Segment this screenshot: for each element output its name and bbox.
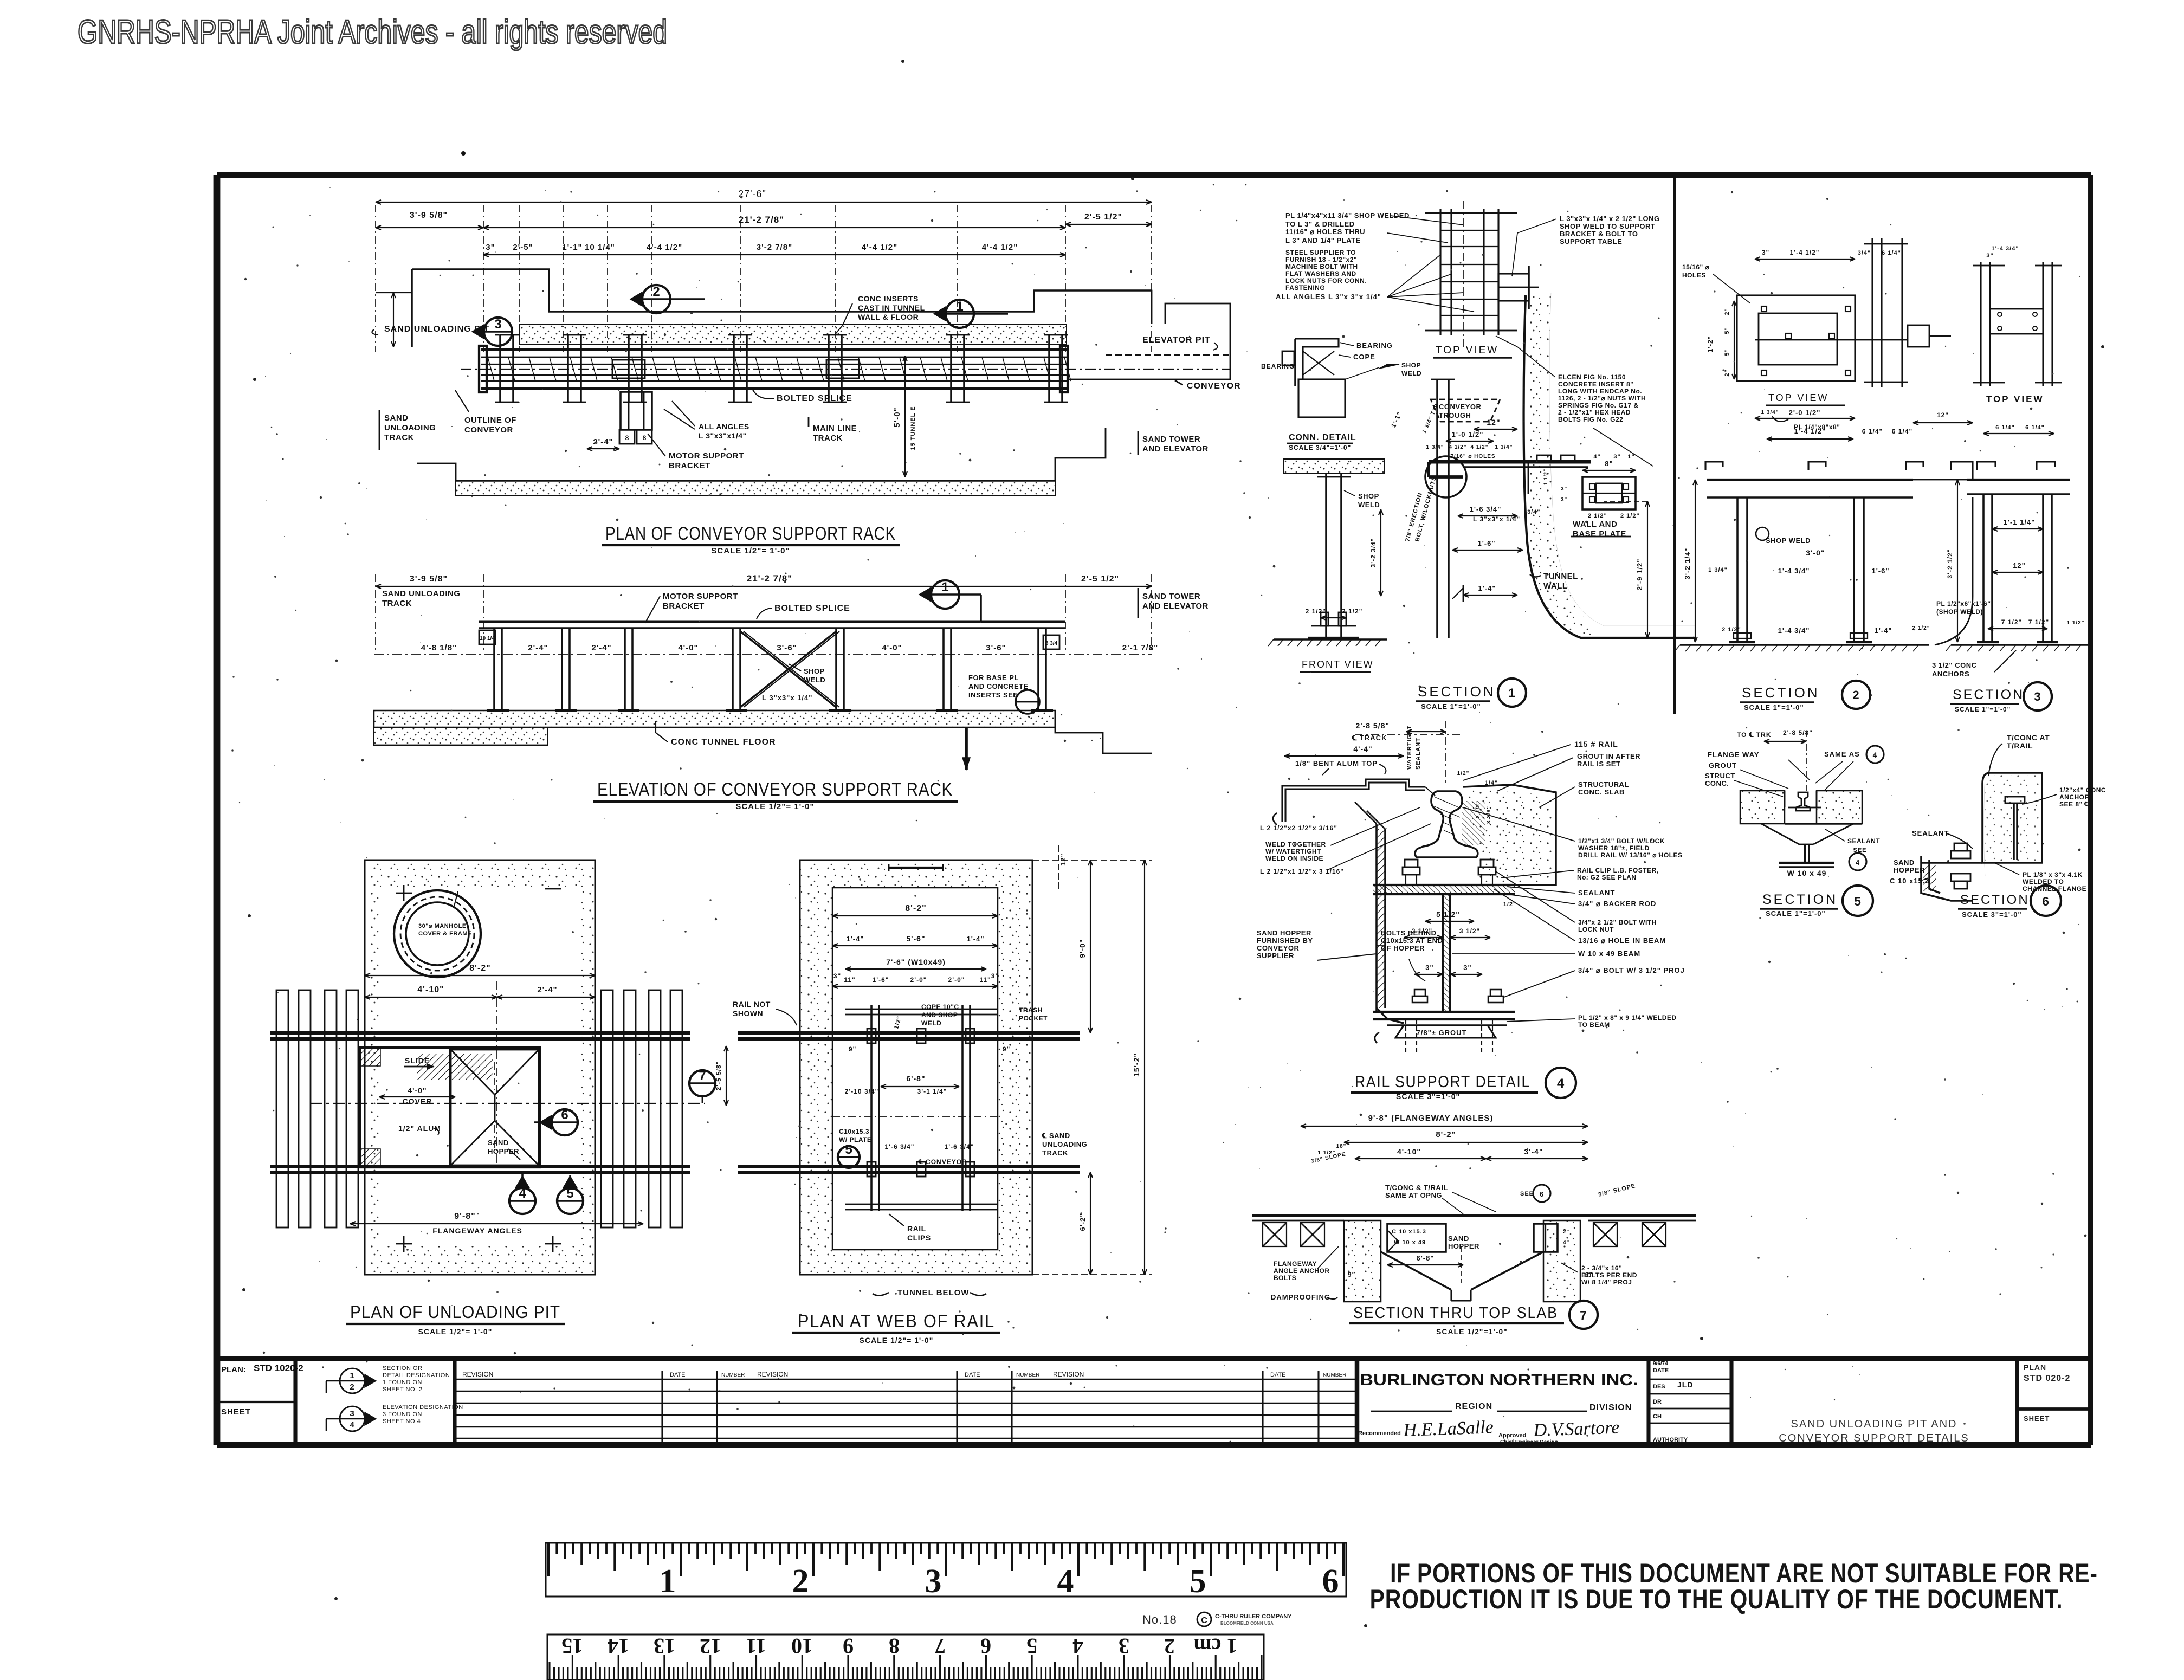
- svg-text:4: 4: [519, 1186, 526, 1201]
- svg-text:5: 5: [845, 1142, 852, 1157]
- svg-text:SAME AT OPNG: SAME AT OPNG: [1385, 1191, 1442, 1199]
- svg-text:FASTENING: FASTENING: [1285, 284, 1325, 292]
- svg-text:4'-4 1/2": 4'-4 1/2": [982, 243, 1018, 252]
- svg-text:OUTLINE OF: OUTLINE OF: [464, 416, 516, 425]
- svg-text:12": 12": [1487, 418, 1500, 427]
- svg-text:SECTION: SECTION: [1742, 684, 1820, 701]
- svg-text:8: 8: [643, 434, 647, 442]
- svg-text:ELEVATOR PIT: ELEVATOR PIT: [1142, 335, 1211, 345]
- svg-text:BRACKET: BRACKET: [663, 602, 705, 611]
- svg-text:2": 2": [1724, 308, 1730, 315]
- svg-text:3: 3: [494, 317, 501, 332]
- svg-text:SEE: SEE: [1853, 847, 1866, 854]
- svg-text:TRASH: TRASH: [1019, 1006, 1043, 1014]
- svg-text:5": 5": [1724, 348, 1730, 356]
- svg-text:SHOP: SHOP: [804, 667, 825, 675]
- svg-text:3 1/2": 3 1/2": [1459, 927, 1480, 935]
- svg-text:1'-4": 1'-4": [1478, 584, 1496, 592]
- svg-text:3/4": 3/4": [1858, 250, 1871, 256]
- svg-text:REGION: REGION: [1455, 1402, 1492, 1411]
- svg-text:1: 1: [956, 299, 963, 314]
- svg-text:1'-4": 1'-4": [846, 935, 864, 943]
- svg-text:CONN. DETAIL: CONN. DETAIL: [1289, 433, 1356, 442]
- svg-text:DIVISION: DIVISION: [1589, 1403, 1632, 1412]
- svg-text:PLAN:: PLAN:: [221, 1365, 246, 1374]
- svg-text:REVISION: REVISION: [1053, 1371, 1084, 1378]
- svg-text:7'-6" (W10x49): 7'-6" (W10x49): [886, 958, 946, 966]
- svg-text:BOLTS FIG No. G22: BOLTS FIG No. G22: [1558, 416, 1623, 423]
- svg-text:3'-0": 3'-0": [1806, 548, 1825, 557]
- svg-text:11: 11: [746, 1634, 766, 1658]
- svg-text:2": 2": [1563, 1229, 1569, 1235]
- svg-text:8": 8": [1605, 460, 1613, 468]
- svg-text:3/4": 3/4": [1527, 509, 1541, 515]
- svg-text:5'-0": 5'-0": [893, 407, 902, 427]
- svg-text:SHOP: SHOP: [1358, 492, 1379, 500]
- svg-text:BOLTS PER END: BOLTS PER END: [1581, 1271, 1637, 1279]
- svg-text:TRACK: TRACK: [384, 433, 414, 442]
- svg-text:TROUGH: TROUGH: [1439, 411, 1471, 419]
- svg-text:1'-0 1/2": 1'-0 1/2": [1452, 430, 1484, 438]
- svg-text:FOR BASE PL: FOR BASE PL: [968, 674, 1019, 682]
- svg-text:7/16" ⌀ HOLES: 7/16" ⌀ HOLES: [1450, 454, 1495, 460]
- svg-text:SEALANT: SEALANT: [1847, 837, 1880, 845]
- svg-text:2: 2: [652, 285, 660, 299]
- svg-text:℄ CONVEYOR: ℄ CONVEYOR: [918, 1158, 967, 1166]
- svg-text:(SHOP WELD): (SHOP WELD): [1936, 608, 1983, 616]
- svg-text:2'-5 1/2": 2'-5 1/2": [1081, 574, 1119, 584]
- svg-text:TRACK: TRACK: [813, 434, 843, 443]
- svg-text:SCALE 1/2"= 1'-0": SCALE 1/2"= 1'-0": [860, 1336, 934, 1345]
- svg-text:DATE: DATE: [1653, 1367, 1669, 1374]
- svg-text:7: 7: [699, 1069, 706, 1083]
- svg-text:2 1/2": 2 1/2": [1912, 625, 1930, 631]
- svg-text:1'-4": 1'-4": [1874, 626, 1892, 635]
- svg-text:SEALANT: SEALANT: [1578, 889, 1615, 897]
- svg-text:3'-6": 3'-6": [986, 643, 1006, 652]
- svg-text:7/8"± GROUT: 7/8"± GROUT: [1417, 1029, 1467, 1037]
- svg-text:11/16" ⌀ HOLES THRU: 11/16" ⌀ HOLES THRU: [1285, 228, 1365, 236]
- svg-text:2'-0": 2'-0": [948, 976, 965, 984]
- svg-text:L 3"x3"x 1/4" x 2 1/2" LONG: L 3"x3"x 1/4" x 2 1/2" LONG: [1560, 215, 1660, 223]
- svg-text:4'-10": 4'-10": [1397, 1147, 1421, 1156]
- svg-text:SHEET: SHEET: [2024, 1414, 2050, 1423]
- svg-text:CONCRETE INSERT 8": CONCRETE INSERT 8": [1558, 380, 1633, 388]
- svg-text:PLAN: PLAN: [2024, 1363, 2046, 1372]
- svg-text:TO ℄ TRK: TO ℄ TRK: [1737, 731, 1771, 739]
- svg-text:SHOP WELD TO SUPPORT: SHOP WELD TO SUPPORT: [1560, 222, 1655, 230]
- svg-text:BOLTED SPLICE: BOLTED SPLICE: [774, 604, 850, 613]
- svg-text:1 1/2": 1 1/2": [2067, 620, 2085, 626]
- svg-text:WALL: WALL: [1543, 581, 1568, 591]
- svg-text:CONC.: CONC.: [1705, 779, 1729, 787]
- svg-text:1/2"x1 3/4" BOLT W/LOCK: 1/2"x1 3/4" BOLT W/LOCK: [1578, 837, 1665, 845]
- svg-text:5: 5: [1854, 894, 1862, 908]
- svg-text:15/16" ⌀: 15/16" ⌀: [1682, 263, 1710, 271]
- svg-text:FLANGE WAY: FLANGE WAY: [1708, 751, 1759, 759]
- svg-text:9'-8" (FLANGEWAY ANGLES): 9'-8" (FLANGEWAY ANGLES): [1368, 1114, 1494, 1123]
- svg-text:COVER: COVER: [403, 1097, 432, 1106]
- svg-text:2": 2": [1724, 369, 1730, 376]
- svg-text:DR: DR: [1653, 1399, 1662, 1405]
- svg-text:STD 020-2: STD 020-2: [2024, 1374, 2070, 1383]
- svg-text:2 1/2": 2 1/2": [1342, 608, 1362, 615]
- svg-text:Recommended: Recommended: [1358, 1430, 1401, 1437]
- svg-text:7: 7: [935, 1634, 946, 1658]
- svg-text:2'-0 1/2": 2'-0 1/2": [1789, 409, 1821, 417]
- svg-text:6: 6: [1540, 1190, 1544, 1198]
- svg-text:3": 3": [1986, 253, 1993, 259]
- svg-text:3'-2 7/8": 3'-2 7/8": [757, 243, 792, 252]
- svg-text:8'-2": 8'-2": [905, 904, 927, 913]
- svg-text:8'-2": 8'-2": [469, 964, 491, 973]
- svg-text:6 1/4": 6 1/4": [1882, 250, 1901, 256]
- svg-text:2 1/2": 2 1/2": [1620, 513, 1640, 519]
- svg-text:MAIN LINE: MAIN LINE: [813, 424, 857, 433]
- svg-text:4: 4: [1856, 858, 1860, 867]
- svg-text:DAMPROOFING: DAMPROOFING: [1271, 1293, 1330, 1301]
- svg-text:8'-2": 8'-2": [1436, 1130, 1456, 1139]
- svg-text:GROUT IN AFTER: GROUT IN AFTER: [1577, 752, 1640, 760]
- svg-text:SAND: SAND: [1894, 858, 1915, 867]
- svg-text:UNLOADING: UNLOADING: [384, 423, 436, 432]
- svg-text:3'-2 1/4": 3'-2 1/4": [1683, 548, 1691, 580]
- svg-text:STEEL SUPPLIER TO: STEEL SUPPLIER TO: [1285, 249, 1356, 256]
- svg-text:INSERTS SEE: INSERTS SEE: [968, 691, 1018, 699]
- svg-text:14: 14: [608, 1634, 629, 1658]
- svg-text:SCALE 1"=1'-0": SCALE 1"=1'-0": [1421, 702, 1481, 710]
- svg-text:WALL AND: WALL AND: [1573, 520, 1617, 529]
- svg-text:UNLOADING: UNLOADING: [1042, 1140, 1087, 1148]
- svg-text:FLAT WASHERS AND: FLAT WASHERS AND: [1285, 270, 1356, 277]
- svg-text:9'-8": 9'-8": [454, 1212, 476, 1221]
- svg-text:SCALE 1/2"=1'-0": SCALE 1/2"=1'-0": [1436, 1327, 1508, 1336]
- svg-text:1 3/4": 1 3/4": [1426, 444, 1444, 450]
- svg-text:FURNISHED BY: FURNISHED BY: [1257, 936, 1313, 945]
- svg-text:WELDED TO: WELDED TO: [2023, 878, 2064, 886]
- svg-text:4'-10": 4'-10": [417, 985, 444, 994]
- svg-text:11": 11": [844, 976, 855, 984]
- svg-text:2'-5 5/8": 2'-5 5/8": [715, 1061, 722, 1091]
- svg-text:1'-4": 1'-4": [966, 935, 984, 943]
- svg-text:7 1/2": 7 1/2": [2028, 618, 2049, 626]
- svg-text:PL 1/2"x6"x1'-6": PL 1/2"x6"x1'-6": [1936, 600, 1991, 608]
- svg-text:3'-2 1/2": 3'-2 1/2": [1946, 549, 1954, 579]
- svg-text:2'-4": 2'-4": [593, 437, 613, 447]
- svg-text:PRODUCTION IT IS DUE TO THE QU: PRODUCTION IT IS DUE TO THE QUALITY OF T…: [1370, 1585, 2063, 1614]
- svg-text:DATE: DATE: [1270, 1372, 1286, 1378]
- svg-text:3/4" ⌀ BOLT W/ 3 1/2" PROJ: 3/4" ⌀ BOLT W/ 3 1/2" PROJ: [1578, 966, 1685, 974]
- svg-text:1'-2": 1'-2": [1707, 336, 1714, 353]
- svg-text:JLD: JLD: [1677, 1380, 1693, 1389]
- svg-text:FLANGEWAY: FLANGEWAY: [1274, 1260, 1317, 1268]
- svg-text:2'-5 1/2": 2'-5 1/2": [1084, 212, 1122, 222]
- svg-text:HOPPER: HOPPER: [1448, 1242, 1479, 1250]
- svg-text:SAND TOWER: SAND TOWER: [1142, 592, 1200, 601]
- svg-text:TRACK: TRACK: [1042, 1149, 1068, 1157]
- svg-text:C 10 x15.3: C 10 x15.3: [1890, 877, 1930, 885]
- svg-text:SAND: SAND: [384, 413, 409, 423]
- svg-text:3'-9 5/8": 3'-9 5/8": [410, 574, 448, 584]
- svg-text:WELD ON INSIDE: WELD ON INSIDE: [1265, 855, 1323, 862]
- svg-text:CONVEYOR: CONVEYOR: [464, 425, 513, 435]
- svg-text:12": 12": [2013, 561, 2026, 570]
- svg-text:SAME AS: SAME AS: [1824, 750, 1860, 758]
- svg-text:6 1/4": 6 1/4": [1995, 424, 2015, 431]
- svg-text:AND CONCRETE: AND CONCRETE: [968, 682, 1029, 690]
- svg-text:SAND UNLOADING PIT: SAND UNLOADING PIT: [384, 325, 489, 334]
- svg-text:CONC. SLAB: CONC. SLAB: [1578, 788, 1625, 796]
- svg-text:REVISION: REVISION: [462, 1371, 493, 1378]
- svg-text:SECTION: SECTION: [1953, 687, 2024, 702]
- svg-text:1'-6 3/4": 1'-6 3/4": [945, 1143, 974, 1151]
- svg-text:BEARING: BEARING: [1261, 363, 1295, 370]
- svg-text:9": 9": [1003, 1045, 1010, 1053]
- svg-text:GROUT: GROUT: [1709, 761, 1737, 770]
- svg-text:SHOWN: SHOWN: [733, 1009, 763, 1018]
- svg-text:1/2"x4" CONC: 1/2"x4" CONC: [2059, 786, 2106, 794]
- svg-text:9: 9: [843, 1634, 854, 1658]
- svg-text:2'-4": 2'-4": [528, 643, 548, 652]
- svg-text:MACHINE BOLT WITH: MACHINE BOLT WITH: [1285, 263, 1358, 270]
- svg-text:3": 3": [486, 243, 495, 252]
- svg-text:CAST IN TUNNEL: CAST IN TUNNEL: [858, 303, 925, 312]
- svg-text:W 10 x 49 BEAM: W 10 x 49 BEAM: [1578, 949, 1640, 958]
- svg-text:SEE 8" ℄: SEE 8" ℄: [2059, 800, 2089, 808]
- svg-text:3": 3": [1762, 249, 1769, 256]
- svg-text:1'-6": 1'-6": [873, 976, 889, 984]
- svg-text:2: 2: [1164, 1634, 1175, 1658]
- svg-text:C: C: [1201, 1616, 1207, 1625]
- svg-text:BOLTS: BOLTS: [1274, 1274, 1296, 1282]
- svg-text:3": 3": [1463, 964, 1471, 972]
- svg-text:1'-1": 1'-1": [562, 243, 582, 252]
- svg-text:12": 12": [1937, 411, 1949, 419]
- svg-text:CONVEYOR: CONVEYOR: [1257, 944, 1300, 952]
- svg-text:WALL & FLOOR: WALL & FLOOR: [858, 313, 919, 321]
- svg-text:1: 1: [660, 1563, 676, 1600]
- svg-text:SAND UNLOADING: SAND UNLOADING: [382, 589, 461, 598]
- svg-text:5: 5: [1190, 1563, 1206, 1600]
- svg-text:TOP VIEW: TOP VIEW: [1986, 394, 2044, 404]
- svg-text:4": 4": [1593, 454, 1600, 460]
- svg-text:2: 2: [792, 1563, 809, 1600]
- svg-text:6 1/4": 6 1/4": [1862, 428, 1883, 435]
- svg-text:WELD: WELD: [1401, 370, 1421, 377]
- svg-text:6: 6: [980, 1634, 991, 1658]
- svg-text:3": 3": [1425, 964, 1433, 972]
- svg-text:ANGLE ANCHOR: ANGLE ANCHOR: [1274, 1267, 1330, 1275]
- svg-text:PLAN OF CONVEYOR SUPPORT RACK: PLAN OF CONVEYOR SUPPORT RACK: [605, 524, 896, 544]
- svg-text:10: 10: [791, 1634, 813, 1658]
- svg-text:9": 9": [1348, 1271, 1355, 1278]
- svg-text:Approved: Approved: [1498, 1432, 1526, 1439]
- svg-text:SCALE 1"=1'-0": SCALE 1"=1'-0": [1955, 706, 2011, 713]
- svg-text:6'-8": 6'-8": [906, 1074, 925, 1083]
- svg-text:6'-8": 6'-8": [1416, 1254, 1434, 1262]
- svg-text:PL 1/2" x 8" x 9 1/4" WELDED: PL 1/2" x 8" x 9 1/4" WELDED: [1578, 1014, 1677, 1022]
- svg-text:FRONT VIEW: FRONT VIEW: [1302, 659, 1374, 670]
- svg-text:2 1/2": 2 1/2": [1588, 513, 1607, 519]
- svg-text:L 2 1/2"x1 1/2"x 3 1/16": L 2 1/2"x1 1/2"x 3 1/16": [1260, 868, 1344, 875]
- svg-text:2'-8 5/8": 2'-8 5/8": [1355, 721, 1390, 730]
- svg-text:6 1/4": 6 1/4": [1892, 428, 1912, 435]
- svg-text:115 # RAIL: 115 # RAIL: [1574, 740, 1618, 748]
- svg-text:SECTION OR: SECTION OR: [383, 1365, 422, 1372]
- svg-text:2'-4": 2'-4": [591, 643, 611, 652]
- svg-text:LONG WITH ENDCAP No.: LONG WITH ENDCAP No.: [1558, 387, 1642, 395]
- svg-text:SUPPLIER: SUPPLIER: [1257, 952, 1294, 960]
- svg-text:℄ TRACK: ℄ TRACK: [1352, 734, 1387, 742]
- svg-text:BOLTS BEHIND: BOLTS BEHIND: [1381, 929, 1437, 937]
- svg-text:1: 1: [350, 1371, 354, 1380]
- svg-text:IF PORTIONS OF THIS DOCUMENT A: IF PORTIONS OF THIS DOCUMENT ARE NOT SUI…: [1390, 1559, 2098, 1588]
- svg-text:NUMBER: NUMBER: [1016, 1372, 1039, 1378]
- svg-text:HOPPER: HOPPER: [1894, 866, 1925, 874]
- svg-text:1/2": 1/2": [1457, 771, 1470, 777]
- svg-text:RAIL IS SET: RAIL IS SET: [1577, 760, 1620, 768]
- svg-text:5'-6": 5'-6": [906, 934, 925, 943]
- svg-text:℄ SAND: ℄ SAND: [1042, 1132, 1070, 1140]
- svg-text:SCALE 1/2"= 1'-0": SCALE 1/2"= 1'-0": [711, 546, 790, 555]
- svg-text:4: 4: [1072, 1634, 1083, 1658]
- svg-text:3": 3": [833, 972, 841, 980]
- svg-text:3/4" ⌀ BACKER ROD: 3/4" ⌀ BACKER ROD: [1578, 900, 1656, 908]
- svg-text:SEE: SEE: [1520, 1191, 1534, 1197]
- svg-text:4: 4: [1557, 1076, 1565, 1091]
- svg-text:9'-0": 9'-0": [1078, 939, 1087, 958]
- svg-text:CONC TUNNEL FLOOR: CONC TUNNEL FLOOR: [671, 738, 776, 747]
- svg-text:BURLINGTON NORTHERN INC.: BURLINGTON NORTHERN INC.: [1360, 1371, 1638, 1389]
- svg-text:6 1/4": 6 1/4": [2025, 424, 2045, 431]
- svg-text:C 10 x15.3: C 10 x15.3: [1392, 1229, 1426, 1235]
- svg-text:SECTION: SECTION: [1762, 892, 1838, 907]
- svg-text:2: 2: [1852, 688, 1859, 702]
- svg-text:3: 3: [925, 1563, 942, 1600]
- svg-text:5": 5": [1724, 327, 1730, 334]
- svg-text:SCALE 1"=1'-0": SCALE 1"=1'-0": [1744, 703, 1804, 712]
- svg-text:2 - 3/4"x 16": 2 - 3/4"x 16": [1581, 1264, 1622, 1272]
- svg-text:FLANGEWAY ANGLES: FLANGEWAY ANGLES: [432, 1226, 522, 1235]
- svg-text:WELD: WELD: [921, 1019, 941, 1027]
- svg-text:W 10 x 49: W 10 x 49: [1787, 869, 1827, 877]
- svg-text:STRUCT: STRUCT: [1705, 772, 1735, 780]
- svg-text:15'-2": 15'-2": [1132, 1053, 1141, 1077]
- svg-text:4'-0": 4'-0": [678, 643, 698, 652]
- svg-text:ELEVATION DESIGNATION: ELEVATION DESIGNATION: [383, 1404, 463, 1411]
- svg-text:4'-0": 4'-0": [882, 643, 902, 652]
- svg-text:FURNISH 18 - 1/2"x2": FURNISH 18 - 1/2"x2": [1285, 256, 1357, 263]
- svg-text:NUMBER: NUMBER: [1323, 1372, 1346, 1378]
- svg-text:SAND UNLOADING PIT AND: SAND UNLOADING PIT AND: [1791, 1418, 1957, 1430]
- svg-text:8: 8: [889, 1634, 900, 1658]
- svg-text:3": 3": [1561, 497, 1567, 503]
- svg-text:SHOP WELD: SHOP WELD: [1766, 537, 1811, 545]
- svg-text:3'-4": 3'-4": [1524, 1147, 1543, 1156]
- svg-text:AND ELEVATOR: AND ELEVATOR: [1142, 444, 1209, 454]
- svg-text:STD 1020-2: STD 1020-2: [254, 1363, 303, 1373]
- svg-text:ALL ANGLES L 3"x 3"x 1/4": ALL ANGLES L 3"x 3"x 1/4": [1276, 293, 1381, 301]
- svg-text:SECTION: SECTION: [1418, 683, 1496, 700]
- svg-text:SLIDE: SLIDE: [405, 1056, 430, 1065]
- svg-text:LOCK NUTS FOR CONN.: LOCK NUTS FOR CONN.: [1285, 277, 1367, 285]
- svg-text:MOTOR SUPPORT: MOTOR SUPPORT: [663, 592, 738, 601]
- svg-text:SHEET NO 4: SHEET NO 4: [383, 1418, 421, 1425]
- svg-text:3/4"x 2 1/2" BOLT WITH: 3/4"x 2 1/2" BOLT WITH: [1578, 919, 1657, 926]
- svg-text:5: 5: [1026, 1634, 1037, 1658]
- svg-text:RAIL CLIP L.B. FOSTER,: RAIL CLIP L.B. FOSTER,: [1577, 867, 1659, 874]
- svg-text:1126, 2 - 1/2"⌀ NUTS WITH: 1126, 2 - 1/2"⌀ NUTS WITH: [1558, 395, 1646, 402]
- svg-text:1 3/4": 1 3/4": [1708, 567, 1728, 573]
- svg-text:4'-4 1/2": 4'-4 1/2": [862, 243, 897, 252]
- svg-text:1'-4 1/2": 1'-4 1/2": [1794, 427, 1826, 435]
- svg-text:TUNNEL BELOW: TUNNEL BELOW: [897, 1288, 970, 1297]
- svg-text:W/ WATERTIGHT: W/ WATERTIGHT: [1265, 848, 1321, 855]
- svg-text:SEALANT: SEALANT: [1912, 829, 1949, 837]
- svg-text:POCKET: POCKET: [1019, 1015, 1048, 1022]
- svg-text:STRUCTURAL: STRUCTURAL: [1578, 780, 1629, 789]
- svg-text:4 1/2": 4 1/2": [1449, 444, 1467, 450]
- svg-text:2'-10 3/4": 2'-10 3/4": [845, 1088, 879, 1095]
- svg-text:CONVEYOR SUPPORT DETAILS: CONVEYOR SUPPORT DETAILS: [1779, 1432, 1969, 1444]
- svg-text:6: 6: [561, 1108, 568, 1122]
- svg-text:3 1/2" CONC: 3 1/2" CONC: [1932, 661, 1977, 669]
- svg-text:T/RAIL: T/RAIL: [2007, 741, 2033, 750]
- svg-text:6'-2": 6'-2": [1078, 1213, 1087, 1231]
- svg-text:SCALE 1/2"= 1'-0": SCALE 1/2"= 1'-0": [735, 802, 814, 811]
- svg-text:W 10 x 49: W 10 x 49: [1394, 1239, 1426, 1246]
- svg-text:D.V.Sartore: D.V.Sartore: [1533, 1417, 1620, 1440]
- svg-text:WATERTIGHT: WATERTIGHT: [1406, 725, 1413, 770]
- svg-text:2'-8 5/8": 2'-8 5/8": [1783, 729, 1813, 736]
- svg-text:3": 3": [1613, 454, 1620, 460]
- svg-text:3: 3: [350, 1409, 354, 1418]
- svg-text:SCALE 3"=1'-0": SCALE 3"=1'-0": [1962, 910, 2022, 919]
- svg-text:SHEET: SHEET: [221, 1407, 251, 1417]
- svg-text:ELEVATION OF CONVEYOR SUPPORT: ELEVATION OF CONVEYOR SUPPORT RACK: [597, 779, 953, 800]
- svg-text:1: 1: [941, 580, 948, 595]
- svg-text:BOLTED SPLICE: BOLTED SPLICE: [777, 394, 852, 403]
- svg-text:9": 9": [849, 1045, 856, 1053]
- svg-text:PL 1/8" x 3"x 4.1K: PL 1/8" x 3"x 4.1K: [2023, 871, 2083, 878]
- svg-text:1 1/2": 1 1/2": [1543, 469, 1548, 485]
- svg-text:Chief Engineer Design: Chief Engineer Design: [1500, 1439, 1558, 1445]
- svg-text:CONVEYOR: CONVEYOR: [1439, 403, 1482, 411]
- svg-text:CH: CH: [1653, 1413, 1662, 1420]
- svg-text:12: 12: [700, 1634, 721, 1658]
- svg-text:BRACKET: BRACKET: [669, 461, 710, 470]
- svg-text:SUPPORT TABLE: SUPPORT TABLE: [1560, 237, 1622, 245]
- svg-text:13/16 ⌀ HOLE IN BEAM: 13/16 ⌀ HOLE IN BEAM: [1578, 936, 1666, 945]
- svg-text:L 3"x3"x 1/4": L 3"x3"x 1/4": [762, 694, 812, 702]
- svg-text:DATE: DATE: [965, 1372, 980, 1378]
- svg-text:3 FOUND ON: 3 FOUND ON: [383, 1411, 422, 1418]
- svg-text:1: 1: [1508, 686, 1515, 700]
- svg-text:LOCK NUT: LOCK NUT: [1578, 926, 1614, 933]
- svg-text:SHOP: SHOP: [1401, 361, 1421, 369]
- svg-text:SCALE 1"=1'-0": SCALE 1"=1'-0": [1766, 909, 1826, 917]
- svg-text:No.18: No.18: [1142, 1613, 1177, 1626]
- svg-text:MOTOR SUPPORT: MOTOR SUPPORT: [669, 451, 744, 461]
- svg-text:4": 4": [1563, 1240, 1569, 1246]
- svg-text:2'-4": 2'-4": [537, 985, 557, 994]
- svg-text:ANCHOR: ANCHOR: [2059, 793, 2090, 801]
- svg-text:1 3/4": 1 3/4": [1495, 444, 1513, 450]
- svg-text:6: 6: [1322, 1563, 1339, 1600]
- svg-text:1'-4 3/4": 1'-4 3/4": [1991, 245, 2019, 252]
- svg-text:1/8" BENT ALUM TOP: 1/8" BENT ALUM TOP: [1295, 759, 1378, 767]
- svg-text:TUNNEL: TUNNEL: [1543, 572, 1578, 581]
